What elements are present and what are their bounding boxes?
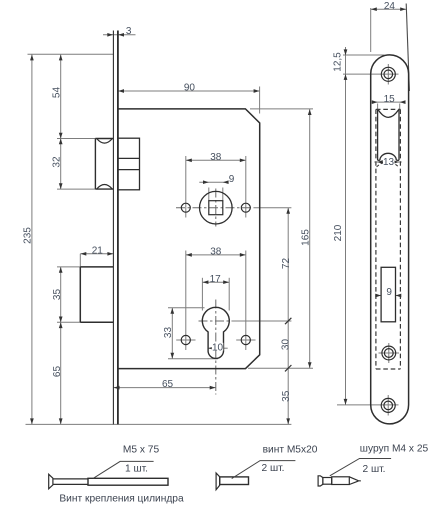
svg-text:M5 x 75: M5 x 75 <box>123 445 160 456</box>
svg-text:210: 210 <box>333 224 344 241</box>
svg-text:2 шт.: 2 шт. <box>261 463 284 474</box>
svg-text:38: 38 <box>210 247 222 258</box>
svg-text:17: 17 <box>210 274 222 285</box>
svg-text:35: 35 <box>52 289 63 301</box>
svg-text:13: 13 <box>383 157 395 168</box>
svg-text:38: 38 <box>210 152 222 163</box>
svg-text:235: 235 <box>23 227 34 244</box>
svg-text:шуруп M4 x 25: шуруп M4 x 25 <box>360 443 429 454</box>
svg-text:165: 165 <box>301 229 312 246</box>
svg-text:32: 32 <box>52 156 63 168</box>
svg-text:90: 90 <box>184 83 196 94</box>
svg-text:15: 15 <box>384 94 396 105</box>
svg-text:30: 30 <box>281 339 292 351</box>
svg-text:2 шт.: 2 шт. <box>362 464 385 475</box>
svg-text:3: 3 <box>126 26 132 37</box>
svg-text:72: 72 <box>281 258 292 270</box>
svg-text:9: 9 <box>386 287 392 298</box>
svg-text:24: 24 <box>384 1 396 12</box>
svg-text:12,5: 12,5 <box>332 52 343 72</box>
svg-text:21: 21 <box>92 245 104 256</box>
svg-text:Винт крепления цилиндра: Винт крепления цилиндра <box>59 493 184 504</box>
svg-text:33: 33 <box>163 327 174 339</box>
svg-text:винт M5x20: винт M5x20 <box>263 444 318 455</box>
svg-text:35: 35 <box>281 390 292 402</box>
svg-text:9: 9 <box>229 174 235 185</box>
svg-text:54: 54 <box>52 87 63 99</box>
svg-text:1 шт.: 1 шт. <box>125 463 148 474</box>
svg-text:65: 65 <box>52 366 63 378</box>
svg-text:65: 65 <box>162 379 174 390</box>
svg-text:10: 10 <box>212 342 224 353</box>
